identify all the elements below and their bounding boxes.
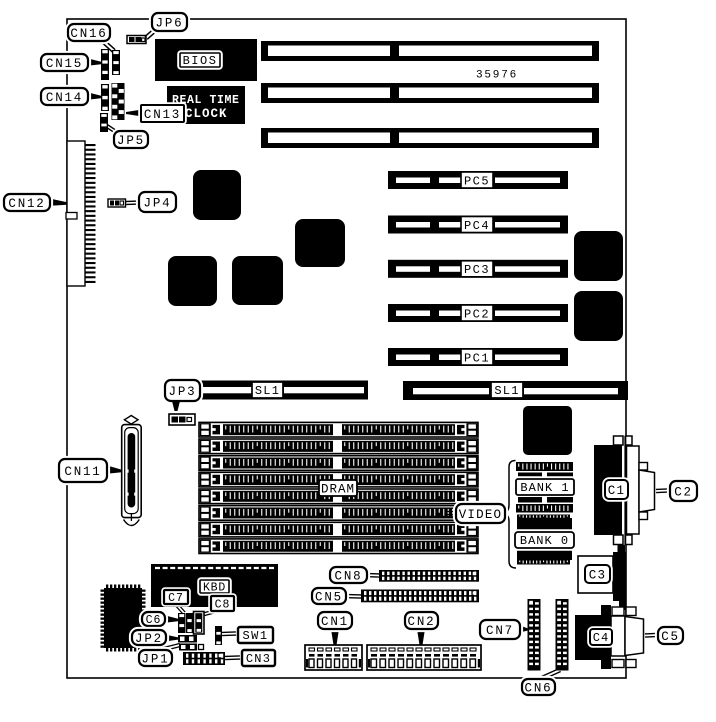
slot SL1 right xyxy=(403,381,628,400)
chip BANK0 top pins xyxy=(517,515,570,519)
connector C1 top screws xyxy=(614,436,633,445)
slot ISA3 xyxy=(261,128,599,148)
callout pointer JP3 xyxy=(172,401,180,411)
slot PC1 xyxy=(388,348,568,366)
callout C7 xyxy=(163,589,190,606)
svg-text:PC3: PC3 xyxy=(464,263,490,277)
connector C4 bracket xyxy=(611,616,625,656)
chip QFP U8 xyxy=(101,585,146,652)
chip BIOS xyxy=(155,39,257,81)
callout pointer CN7 xyxy=(520,626,528,633)
svg-text:PC1: PC1 xyxy=(464,351,490,365)
callout pointer C2 xyxy=(656,489,668,493)
callout CN16 xyxy=(67,23,112,43)
callout CN3 xyxy=(242,650,275,666)
svg-text:JP5: JP5 xyxy=(117,134,145,148)
label BANK0 xyxy=(514,531,576,550)
callout CN13 xyxy=(140,104,186,124)
callout CN15 xyxy=(40,53,90,73)
svg-text:C8: C8 xyxy=(215,599,231,612)
callout CN6 xyxy=(521,678,557,697)
connector CN11 top key xyxy=(124,416,138,425)
slot PC5 xyxy=(388,171,568,189)
callout CN8 xyxy=(329,566,369,585)
callout pointer C8 xyxy=(201,610,217,617)
chip BANK0 bottom pins xyxy=(517,559,570,565)
callout pointer JP1 xyxy=(160,644,181,652)
socket SIMM row 5 xyxy=(199,489,478,504)
callout JP1 xyxy=(138,649,174,668)
svg-text:35976: 35976 xyxy=(476,70,518,82)
callout pointer VIDEO xyxy=(446,512,453,515)
slot PC4 xyxy=(388,216,568,234)
header CN5 xyxy=(361,590,479,603)
svg-text:BIOS: BIOS xyxy=(183,54,218,68)
callout CN14 xyxy=(40,87,90,107)
svg-text:CLOCK: CLOCK xyxy=(185,107,228,121)
header CN8 xyxy=(379,570,479,582)
callout pointer CN1 xyxy=(331,629,339,645)
chip U4 xyxy=(295,219,345,267)
callout C6 xyxy=(141,611,167,628)
socket SIMM row 1 xyxy=(199,422,478,437)
jumper JP6 xyxy=(127,36,146,44)
chip KBD xyxy=(151,564,278,607)
callout pointer JP5 xyxy=(106,125,117,133)
socket SIMM row 7 xyxy=(199,522,478,537)
header JP5 xyxy=(100,113,108,132)
header CN7 xyxy=(528,599,541,671)
header CN16 xyxy=(112,50,120,75)
callout pointer C7 xyxy=(175,603,185,614)
svg-text:DRAM: DRAM xyxy=(321,482,355,496)
connector CN2 xyxy=(367,645,481,670)
svg-text:SL1: SL1 xyxy=(494,384,519,398)
callout pointer CN2 xyxy=(417,629,425,645)
callout C2 xyxy=(669,480,699,503)
brace video banks xyxy=(502,461,517,569)
slot PC2 xyxy=(388,304,568,322)
callout pointer SW1 xyxy=(222,632,236,636)
svg-text:CN14: CN14 xyxy=(46,91,83,105)
callout pointer JP6 xyxy=(145,30,155,40)
slot SL1 left xyxy=(169,381,368,400)
svg-text:SL1: SL1 xyxy=(255,384,280,398)
connector C1 body xyxy=(594,445,622,535)
label C1 xyxy=(604,479,630,501)
socket SIMM row 3 xyxy=(199,456,478,471)
connector CN1 xyxy=(305,645,362,670)
callout CN12 xyxy=(3,193,52,213)
svg-text:PC4: PC4 xyxy=(464,219,490,233)
callout pointer CN16 xyxy=(103,41,115,53)
svg-text:SW1: SW1 xyxy=(242,629,268,643)
connector C2 dsub xyxy=(639,470,655,512)
svg-text:CN5: CN5 xyxy=(315,590,343,604)
label SL1 left xyxy=(252,382,283,398)
connector C4 top tabs xyxy=(601,605,636,616)
svg-text:CN6: CN6 xyxy=(525,681,553,695)
slot PC3 xyxy=(388,260,568,278)
jumper JP1 xyxy=(179,644,204,651)
callout pointer CN12 xyxy=(47,198,67,206)
svg-text:JP2: JP2 xyxy=(135,632,163,646)
svg-text:CN2: CN2 xyxy=(408,615,436,629)
svg-text:BANK 1: BANK 1 xyxy=(520,481,569,495)
callout pointer CN15 xyxy=(86,58,101,66)
callout C5 xyxy=(657,626,685,646)
svg-text:C7: C7 xyxy=(168,592,184,605)
slot ISA1 xyxy=(261,41,599,61)
header CN3 xyxy=(183,652,225,665)
label SL1 right xyxy=(491,382,523,398)
label BANK1 xyxy=(515,478,576,497)
label BIOS xyxy=(179,52,222,69)
svg-text:CN12: CN12 xyxy=(8,197,45,211)
callout SW1 xyxy=(238,627,273,643)
connector CN12 key notch xyxy=(66,213,77,220)
header CN15 xyxy=(101,49,109,80)
svg-text:C5: C5 xyxy=(661,630,680,644)
svg-text:JP6: JP6 xyxy=(156,16,184,30)
label KBD xyxy=(199,579,231,595)
svg-text:CN1: CN1 xyxy=(321,615,349,629)
connector C3 din xyxy=(613,545,626,610)
socket BANK1 strips2 xyxy=(518,497,573,503)
header CN6 xyxy=(556,599,569,671)
header C6 C7 xyxy=(178,613,193,633)
chip U7 xyxy=(523,406,572,455)
svg-text:JP4: JP4 xyxy=(144,196,172,210)
svg-text:BANK 0: BANK 0 xyxy=(520,534,569,548)
svg-text:JP3: JP3 xyxy=(169,385,197,399)
svg-text:PC2: PC2 xyxy=(464,307,490,321)
svg-text:CN13: CN13 xyxy=(144,108,181,122)
chip U2 xyxy=(168,256,217,306)
header CN13 xyxy=(112,83,125,120)
chip BANK0 body xyxy=(517,518,572,560)
chip U5 xyxy=(574,231,623,281)
svg-text:C3: C3 xyxy=(589,568,606,582)
connector C3 box xyxy=(578,556,613,593)
connector CN11 body xyxy=(122,425,142,518)
header CN14 xyxy=(101,84,109,111)
svg-text:CN16: CN16 xyxy=(70,27,107,41)
callout pointer CN11 xyxy=(105,465,122,474)
connector CN12 pins xyxy=(85,144,96,283)
callout pointer CN5 xyxy=(344,594,361,598)
callout VIDEO xyxy=(455,503,507,525)
connector CN11 bottom key xyxy=(124,514,140,526)
callout pointer CN3 xyxy=(225,656,240,660)
connector C4 bottom tabs xyxy=(601,660,636,670)
socket BANK1 top pins xyxy=(516,462,573,471)
callout pointer CN8 xyxy=(365,573,379,577)
connector C2 tabs xyxy=(639,463,648,520)
jumper JP2 xyxy=(178,635,197,643)
chip U3 xyxy=(232,256,283,305)
callout pointer JP2 xyxy=(165,635,178,642)
callout CN2 xyxy=(404,611,440,631)
svg-text:CN15: CN15 xyxy=(46,57,83,71)
socket BANK1 strips xyxy=(518,473,573,479)
svg-text:CN3: CN3 xyxy=(246,652,271,666)
callout pointer CN6 xyxy=(539,669,560,681)
callout pointer CN14 xyxy=(86,92,101,100)
jumper JP4 xyxy=(108,199,126,207)
svg-text:C6: C6 xyxy=(146,614,162,627)
svg-text:CN11: CN11 xyxy=(64,465,101,479)
chip U1 xyxy=(193,170,241,220)
callout JP5 xyxy=(113,130,150,150)
label C4 xyxy=(589,628,614,647)
header C8 xyxy=(194,612,205,635)
callout CN11 xyxy=(58,458,109,484)
socket SIMM row 4 xyxy=(199,472,478,487)
socket SIMM row 6 xyxy=(199,506,478,521)
switch SW1 xyxy=(215,626,222,645)
callout JP2 xyxy=(131,629,168,647)
chip REAL TIME CLOCK xyxy=(167,86,245,124)
svg-text:CN8: CN8 xyxy=(335,569,363,583)
svg-text:C4: C4 xyxy=(593,631,609,645)
svg-text:C1: C1 xyxy=(608,484,625,498)
svg-text:PC5: PC5 xyxy=(464,174,490,188)
board outline xyxy=(67,19,626,678)
connector CN12 body xyxy=(67,141,85,286)
label C3 xyxy=(584,564,612,585)
callout JP4 xyxy=(138,191,178,214)
callout CN1 xyxy=(317,611,354,631)
socket SIMM row 2 xyxy=(199,439,478,454)
callout C8 xyxy=(210,595,236,613)
callout pointer C5 xyxy=(645,633,656,637)
connector C4 body xyxy=(575,615,611,660)
chip U6 xyxy=(574,291,623,341)
connector C1 gap line xyxy=(624,436,626,545)
label DRAM xyxy=(319,480,357,496)
svg-text:VIDEO: VIDEO xyxy=(459,508,503,522)
connector C5 dsub xyxy=(625,617,644,656)
callout pointer C6 xyxy=(163,615,178,623)
slot ISA2 xyxy=(261,83,599,103)
connector C1 bottom screws xyxy=(614,535,633,545)
callout CN7 xyxy=(479,619,522,641)
svg-text:JP1: JP1 xyxy=(142,652,170,666)
callout JP3 xyxy=(164,379,202,403)
callout pointer CN13 xyxy=(126,110,142,117)
connector C1 bracket xyxy=(627,446,640,534)
socket SIMM row 8 xyxy=(199,539,478,554)
svg-text:C2: C2 xyxy=(674,485,693,499)
callout JP6 xyxy=(151,12,189,33)
svg-text:CN7: CN7 xyxy=(486,624,514,638)
callout CN5 xyxy=(311,587,348,606)
svg-text:KBD: KBD xyxy=(203,582,226,595)
jumper JP3 xyxy=(169,414,195,425)
callout pointer JP4 xyxy=(126,201,140,205)
socket BANK1 bottom pins xyxy=(516,504,573,513)
